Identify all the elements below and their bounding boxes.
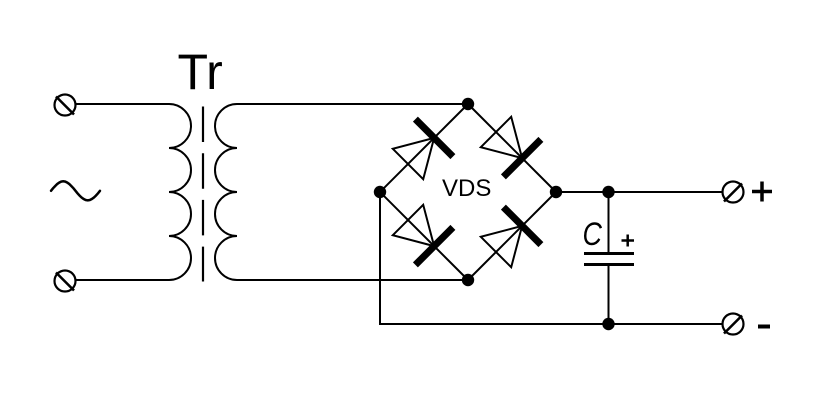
AC source tilde symbol bbox=[51, 181, 100, 200]
transformer Tr primary winding bbox=[169, 104, 191, 280]
capacitor C bottom lead bbox=[608, 265, 610, 324]
svg-text:C: C bbox=[583, 217, 603, 253]
svg-text:VDS: VDS bbox=[442, 175, 491, 202]
node capacitor top junction bbox=[602, 186, 614, 198]
diode D4 (bottom node to right node) bbox=[481, 207, 541, 267]
node right junction bbox=[550, 186, 562, 198]
terminal X4 (- output) bbox=[723, 314, 744, 335]
node capacitor bottom junction bbox=[602, 318, 614, 330]
terminal X1 (AC input top) bbox=[55, 95, 76, 116]
minus output label bbox=[758, 325, 770, 329]
terminal X3 (+ output) bbox=[723, 182, 744, 203]
bridge edge left-bottom bbox=[380, 192, 468, 280]
bridge edge bottom-right bbox=[468, 192, 556, 280]
capacitor polarity + mark bbox=[622, 235, 635, 247]
diode D1 (left node to top node) bbox=[393, 119, 453, 179]
node left junction bbox=[374, 186, 386, 198]
transformer Tr core (dashed line) bbox=[202, 107, 204, 282]
wire secondary top to bridge top node bbox=[237, 103, 468, 105]
wire X2 to transformer primary bottom bbox=[76, 279, 170, 281]
capacitor C top plate bbox=[584, 252, 634, 255]
diode D2 (top node to right node) bbox=[481, 117, 541, 177]
capacitor C bottom plate bbox=[584, 263, 634, 266]
diode D3 (left node to bottom node) bbox=[393, 205, 453, 265]
capacitor C top lead bbox=[608, 192, 610, 253]
node bottom junction bbox=[462, 274, 474, 286]
wire right node to + terminal bbox=[556, 191, 723, 193]
wire bottom rail to - terminal bbox=[379, 323, 723, 325]
bridge edge top-right bbox=[468, 104, 556, 192]
wire left node down bbox=[379, 192, 381, 324]
svg-text:Tr: Tr bbox=[178, 44, 223, 100]
terminal X2 (AC input bottom) bbox=[55, 271, 76, 292]
plus output label bbox=[752, 182, 772, 202]
transformer Tr secondary winding bbox=[215, 104, 237, 280]
wire X1 to transformer primary top bbox=[76, 103, 170, 105]
wire secondary bottom to bridge bottom node bbox=[237, 279, 468, 281]
node top junction bbox=[462, 98, 474, 110]
bridge edge left-top bbox=[380, 104, 468, 192]
